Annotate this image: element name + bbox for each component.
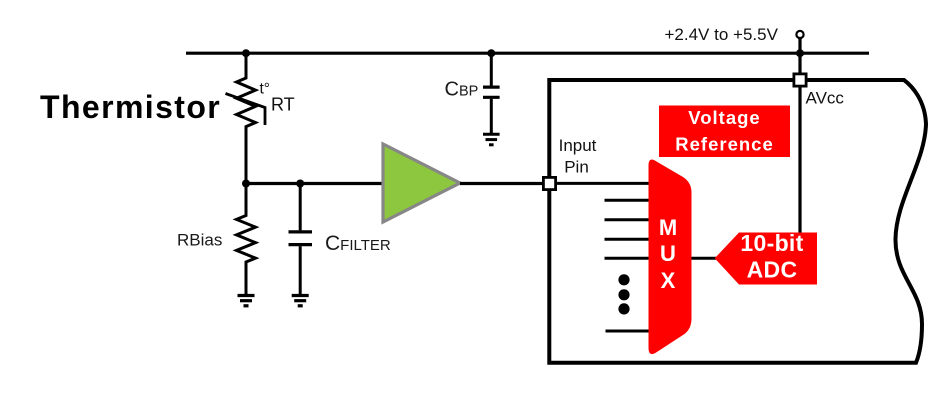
svg-text:Reference: Reference (675, 134, 773, 155)
svg-text:ADC: ADC (747, 257, 798, 283)
svg-text:AVcc: AVcc (806, 89, 845, 108)
node: CFILTER junction (296, 180, 304, 188)
svg-text:Thermistor: Thermistor (40, 89, 221, 125)
pin: Input Pin square (543, 177, 555, 189)
wire: buffer output to input pin (460, 182, 545, 185)
wire: mid horizontal (246, 182, 383, 185)
supply terminal circle (796, 31, 803, 38)
thermistor RT zigzag + leads (237, 53, 256, 183)
capacitor CBP (483, 53, 500, 133)
wire: top supply rail (186, 52, 869, 55)
node: RT-RBias junction (242, 180, 250, 188)
svg-text:RBias: RBias (177, 231, 222, 250)
op-amp buffer U1 (383, 144, 460, 222)
thermistor RT diagonal mark (226, 94, 266, 126)
svg-text:M: M (659, 215, 677, 240)
wire: input pin to MUX (554, 182, 649, 185)
ground (CBP) (483, 134, 500, 145)
adc U3 (715, 233, 817, 285)
svg-text:RT: RT (271, 95, 295, 115)
svg-text:t°: t° (260, 81, 271, 98)
wire: terminal to AVcc pin (798, 39, 801, 74)
ground (CFILTER) (292, 296, 309, 306)
svg-text:+2.4V to +5.5V: +2.4V to +5.5V (665, 25, 779, 44)
svg-text:CFILTER: CFILTER (325, 232, 391, 255)
svg-text:Input: Input (559, 136, 597, 155)
ellipsis dots (618, 274, 629, 285)
svg-text:CBP: CBP (445, 79, 479, 101)
mux input stub wires (605, 200, 650, 331)
node: rail-CBP junction (487, 49, 495, 57)
svg-text:10-bit: 10-bit (740, 230, 803, 256)
svg-text:Voltage: Voltage (688, 107, 760, 128)
wire: AVcc pin to ADC (798, 86, 801, 233)
svg-text:X: X (661, 268, 676, 293)
voltage reference box (659, 106, 790, 158)
resistor RBias (237, 184, 256, 295)
mux U2 (649, 159, 692, 354)
wire: MUX output to ADC (690, 257, 716, 260)
MCU box outline (549, 80, 926, 363)
ground (RBias) (238, 296, 255, 306)
capacitor CFILTER (289, 184, 313, 295)
pin: AVcc square (794, 74, 806, 86)
svg-text:Pin: Pin (564, 157, 589, 176)
svg-text:U: U (660, 241, 676, 266)
node: rail-RT junction (242, 49, 250, 57)
node: rail-AVcc junction (796, 49, 804, 57)
